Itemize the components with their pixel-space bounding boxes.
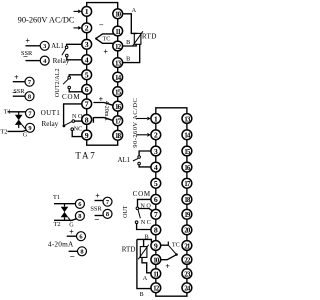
terminal b14	[182, 130, 192, 140]
svg-text:–: –	[98, 19, 103, 28]
option terminal 6 (SCR)	[75, 199, 84, 208]
svg-text:A: A	[143, 275, 148, 282]
terminal b19	[182, 209, 192, 219]
terminal b11	[151, 269, 161, 279]
svg-text:9: 9	[85, 131, 89, 140]
contact point (OUT2 upper)	[68, 76, 71, 79]
option terminal 9 (SCR)	[26, 123, 35, 132]
svg-text:T2: T2	[53, 221, 60, 228]
wire: link b6-b7	[155, 204, 157, 209]
wire - lead to b8 option	[69, 250, 78, 252]
wire: link b22-b23	[186, 264, 188, 268]
wire: link 12-13	[117, 51, 119, 58]
svg-text:4: 4	[154, 163, 158, 172]
contact arm bAL1	[133, 158, 138, 161]
svg-text:TC: TC	[172, 242, 180, 249]
wire: link b19-b20	[186, 219, 188, 225]
terminal b13	[182, 114, 192, 124]
RTD diagonal (bottom)	[138, 245, 149, 260]
wire: link b15-b16	[186, 156, 188, 162]
terminal b17	[182, 178, 192, 188]
wire: link b8-b9	[155, 235, 157, 241]
TC wire to terminal 11	[97, 34, 115, 38]
terminal b9	[151, 241, 161, 251]
wire: link b23-b24	[186, 279, 188, 283]
terminal b23	[182, 269, 192, 279]
wire: link 16-17	[117, 111, 119, 116]
wire - lead to b8 option	[95, 215, 103, 217]
option terminal 3	[40, 41, 49, 50]
wire + lead to b6 option	[67, 235, 77, 237]
terminal 15	[113, 87, 123, 97]
terminal 17	[113, 116, 123, 126]
contact arm bOUT	[138, 210, 140, 219]
svg-text:AL1: AL1	[51, 43, 63, 50]
svg-text:6: 6	[154, 195, 158, 204]
svg-text:3: 3	[85, 40, 89, 49]
svg-text:+: +	[14, 73, 19, 82]
relay pivot dot	[63, 125, 66, 128]
RTD body (bottom)	[140, 247, 147, 258]
wire: bottom link terminal 9 to terminal 18	[87, 140, 118, 145]
wire: link b5-b6	[155, 188, 157, 194]
terminal b22	[182, 255, 192, 265]
svg-text:B: B	[126, 39, 130, 46]
wire T2 to b8 option	[54, 219, 76, 221]
wire: link 10-11	[117, 19, 119, 26]
terminal 12	[113, 41, 123, 51]
wire: link b21-b22	[186, 250, 188, 254]
contact point (OUT2 lower)	[68, 86, 71, 89]
wire - to terminal 17	[94, 118, 112, 121]
wire: bottom link terminal 12 to 24	[156, 293, 187, 297]
svg-text:N O: N O	[140, 202, 151, 209]
svg-text:OUT1: OUT1	[41, 109, 61, 117]
option terminal 8 (4-20mA)	[78, 247, 87, 256]
svg-text:1: 1	[154, 114, 158, 123]
terminal 11	[113, 26, 123, 36]
wire: link b9-b10	[155, 250, 157, 254]
contact point bNO	[136, 207, 139, 210]
wire from b3 to contact	[139, 151, 151, 156]
wire A to b11	[142, 257, 151, 272]
terminal 14	[113, 72, 123, 82]
wire T2 to 9	[8, 130, 27, 131]
wire + lead to b7 option	[95, 200, 103, 202]
TC wire from b10	[161, 255, 177, 260]
contact point NO	[72, 120, 75, 123]
terminal 1	[82, 6, 92, 16]
wire: link b7-b8	[155, 219, 157, 225]
contact point (bAL1 upper)	[138, 156, 141, 159]
wire: link 6-7	[86, 94, 88, 99]
TC wire to terminal 12	[97, 39, 114, 43]
svg-text:AL1: AL1	[118, 157, 130, 164]
svg-text:+: +	[69, 227, 74, 236]
svg-text:2: 2	[154, 131, 158, 140]
terminal 6	[82, 85, 92, 95]
wire: link 17-18	[117, 126, 119, 131]
wire: link 13-14	[117, 68, 119, 73]
svg-text:8: 8	[78, 213, 81, 220]
wire: link 14-15	[117, 82, 119, 87]
contact point (AL1 lower)	[66, 54, 69, 57]
wire from contact to b4	[139, 165, 151, 167]
svg-text:RTD: RTD	[142, 33, 157, 41]
svg-text:9: 9	[28, 125, 31, 132]
svg-text:N C: N C	[141, 219, 151, 226]
terminal 9	[82, 130, 92, 140]
contact point (bAL1 lower)	[138, 162, 141, 165]
terminal 2	[82, 23, 92, 33]
wire B tall to b12	[137, 239, 151, 288]
wire: link 4-5	[86, 65, 88, 70]
svg-text:T2: T2	[0, 129, 7, 136]
wire: link b20-b21	[186, 235, 188, 241]
arrow into terminal b2	[136, 134, 147, 136]
TC junction dot (bottom)	[175, 253, 178, 256]
wire B from terminal 13	[123, 44, 140, 62]
terminal b4	[151, 162, 161, 172]
svg-text:9: 9	[154, 241, 158, 250]
terminal 18	[113, 130, 123, 140]
wire NC to b8	[137, 224, 151, 230]
svg-text:8: 8	[80, 249, 83, 256]
wire: link 8-9	[86, 124, 88, 130]
svg-text:+: +	[165, 262, 170, 271]
svg-text:OUT: OUT	[123, 205, 129, 218]
option terminal 6 (4-20mA)	[77, 232, 86, 241]
contact point bNC	[135, 221, 138, 224]
svg-text:TA7: TA7	[75, 150, 96, 160]
terminal b5	[151, 178, 161, 188]
wire: link 15-16	[117, 97, 119, 102]
svg-text:3: 3	[154, 147, 158, 156]
svg-text:G: G	[23, 132, 28, 139]
wire: link 5-6	[86, 80, 88, 85]
svg-text:+: +	[103, 47, 108, 56]
wire: link b3-b4	[155, 156, 157, 162]
option terminal 7	[25, 77, 34, 86]
wire from contact to terminal 4	[67, 57, 82, 60]
wire: link b14-b15	[186, 140, 188, 146]
svg-text:B: B	[126, 55, 130, 62]
svg-text:6: 6	[85, 85, 89, 94]
option terminal 8 (SCR)	[75, 211, 84, 220]
wire: link b17-b18	[186, 188, 188, 194]
wire: link b2-b3	[155, 140, 157, 146]
svg-text:5: 5	[154, 179, 158, 188]
svg-text:5: 5	[85, 71, 89, 80]
terminal 10	[113, 9, 123, 19]
RTD stub (bottom)	[143, 239, 145, 246]
wire T1 to 7	[8, 111, 26, 113]
option terminal 8 (SSR)	[103, 209, 112, 218]
wire: link 2-3	[86, 33, 88, 40]
triac symbol (bottom)	[64, 204, 66, 207]
svg-text:T1: T1	[53, 194, 60, 201]
svg-text:N O: N O	[72, 113, 83, 120]
wire + lead to 7	[13, 81, 25, 83]
wire: link 7-8	[86, 109, 88, 115]
svg-text:B: B	[145, 233, 149, 240]
wire: link b18-b19	[186, 204, 188, 209]
svg-text:8: 8	[28, 94, 31, 101]
contact arm OUT2	[63, 79, 68, 84]
svg-text:7: 7	[154, 210, 158, 219]
wire - lead to 4	[26, 60, 41, 62]
svg-text:NC: NC	[74, 126, 83, 133]
wire NC to terminal 9	[72, 131, 82, 137]
wire: link b4-b5	[155, 172, 157, 178]
wire + to terminal 16	[93, 103, 113, 106]
wire COM from b6	[138, 199, 151, 207]
svg-text:90-260V AC/DC: 90-260V AC/DC	[132, 98, 139, 148]
terminal b10	[151, 255, 161, 265]
wire: top link terminal 1 to 13 (bottom diagram)	[156, 108, 187, 114]
terminal 5	[82, 70, 92, 80]
terminal b8	[151, 225, 161, 235]
terminal b16	[182, 162, 192, 172]
option terminal 8	[25, 92, 34, 101]
option terminal 7 (SCR)	[26, 109, 35, 118]
TC wire from b9	[161, 244, 169, 246]
svg-text:COM: COM	[62, 93, 80, 101]
contact point (AL1 upper)	[65, 46, 68, 49]
svg-text:OUT2/AL2: OUT2/AL2	[54, 68, 61, 97]
TC wire diag upper (bottom)	[168, 245, 176, 254]
wire: link 11-12	[117, 36, 119, 41]
terminal 13	[113, 58, 123, 68]
wire + lead to 3	[26, 45, 41, 47]
svg-text:7: 7	[85, 100, 89, 109]
terminal b18	[182, 195, 192, 205]
terminal b3	[151, 146, 161, 156]
arrow into terminal b1	[136, 118, 147, 120]
relay arm OUT1	[65, 122, 72, 126]
svg-text:+: +	[95, 192, 100, 201]
terminal 3	[82, 39, 92, 49]
svg-text:COM: COM	[133, 190, 151, 198]
RTD body (top)	[134, 33, 141, 44]
terminal b15	[182, 146, 192, 156]
svg-text:Relay: Relay	[42, 120, 59, 128]
svg-text:4-20mA: 4-20mA	[103, 101, 109, 122]
svg-text:4-20mA: 4-20mA	[48, 239, 74, 248]
terminal 4	[82, 55, 92, 65]
wire: link 3-4	[86, 49, 88, 55]
wire B from terminal 12	[123, 44, 137, 46]
contact arm AL1	[62, 49, 66, 56]
svg-text:2: 2	[85, 24, 89, 33]
terminal b6	[151, 195, 161, 205]
svg-text:3: 3	[43, 43, 46, 50]
svg-text:B: B	[140, 291, 144, 298]
terminal b12	[151, 283, 161, 293]
wire: link 1-2	[86, 16, 88, 23]
svg-text:TC: TC	[102, 35, 110, 42]
svg-text:8: 8	[106, 211, 109, 218]
wire COM from terminal 7	[64, 104, 82, 125]
svg-text:+: +	[25, 37, 30, 46]
option terminal 7 (SSR)	[103, 197, 112, 206]
label - (4-20mA top, vertical)	[92, 117, 94, 123]
svg-text:8: 8	[154, 226, 158, 235]
arrow into terminal 1	[74, 10, 79, 12]
wire: top link terminal 1 to terminal 10	[87, 3, 118, 9]
terminal b7	[151, 209, 161, 219]
arrow into terminal 2	[74, 27, 79, 29]
wire A from terminal 10	[123, 14, 137, 34]
wire - lead to 8	[13, 95, 25, 97]
terminal b2	[151, 130, 161, 140]
wire: link b13-b14	[186, 123, 188, 129]
svg-text:SSR: SSR	[90, 206, 102, 213]
triac symbol (top)	[18, 112, 20, 115]
svg-text:4: 4	[85, 55, 89, 64]
terminal b20	[182, 225, 192, 235]
wire NO to terminal 8	[75, 120, 83, 122]
wire: link b11-b12	[155, 279, 157, 283]
terminal b24	[182, 283, 192, 293]
wire from contact to terminal 6	[69, 89, 83, 92]
wire from terminal 3 to contact	[67, 44, 82, 46]
RTD diagonal (top)	[132, 31, 143, 46]
wire B top to b9	[137, 239, 152, 242]
svg-text:90-260V AC/DC: 90-260V AC/DC	[18, 16, 75, 25]
svg-text:1: 1	[85, 7, 89, 16]
wire: link b10-b11	[155, 264, 157, 268]
wire: link b1-b2	[155, 123, 157, 129]
wire: link b16-b17	[186, 172, 188, 178]
wire from terminal 5 to contact	[69, 75, 82, 77]
contact point NC	[71, 128, 74, 131]
terminal 16	[113, 101, 123, 111]
terminal 7	[82, 99, 92, 109]
svg-text:8: 8	[85, 115, 89, 124]
svg-text:A: A	[131, 7, 136, 14]
terminal b1	[151, 114, 161, 124]
wire NO to b7	[139, 209, 153, 212]
terminal 8	[82, 115, 92, 125]
TC junction dot	[95, 37, 97, 39]
wire T1 to b6 option	[54, 203, 75, 205]
terminal b21	[182, 241, 192, 251]
TC minus tick (bottom)	[167, 242, 169, 246]
option terminal 4	[40, 56, 49, 65]
svg-text:RTD: RTD	[122, 246, 136, 254]
